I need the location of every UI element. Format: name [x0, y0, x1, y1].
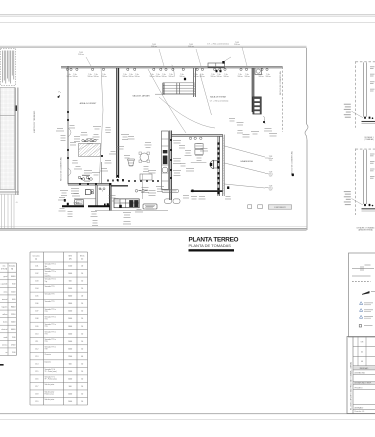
svg-text:100 va: 100 va [134, 76, 139, 78]
svg-text:100 va: 100 va [265, 76, 270, 78]
svg-text:+5: +5 [16, 202, 18, 204]
svg-text:(AREA EXTERNA): (AREA EXTERNA) [358, 229, 373, 232]
svg-text:RECUO DE COBERTURA: RECUO DE COBERTURA [279, 71, 282, 95]
svg-text:C13: C13 [35, 356, 38, 358]
svg-text:10: 10 [81, 303, 83, 305]
svg-text:6000: 6000 [68, 296, 72, 298]
svg-text:TTE: TTE [45, 349, 48, 351]
svg-text:milhos: milhos [2, 314, 7, 316]
svg-text:C06: C06 [35, 303, 38, 305]
svg-text:200: 200 [12, 337, 15, 339]
svg-text:440: 440 [12, 299, 15, 301]
svg-text:TTT: TTT [45, 273, 48, 275]
svg-text:Tomadas TTS e: Tomadas TTS e [45, 339, 56, 341]
svg-text:100 va: 100 va [151, 46, 156, 48]
svg-text:T-29: T-29 [269, 176, 272, 178]
svg-text:a parede: a parede [1, 283, 8, 286]
svg-text:Tomadas TTS e: Tomadas TTS e [45, 271, 56, 273]
svg-text:1000: 1000 [68, 378, 72, 380]
svg-text:40: 40 [81, 356, 83, 358]
svg-text:Tomadas TTS: Tomadas TTS [45, 301, 55, 303]
svg-text:SALA DE JANTAR: SALA DE JANTAR [132, 95, 150, 98]
svg-text:T-29: T-29 [269, 190, 272, 192]
svg-text:Tomadas TTS e: Tomadas TTS e [45, 324, 56, 326]
svg-text:100 va: 100 va [199, 76, 204, 78]
svg-text:06: 06 [361, 361, 363, 363]
svg-text:5000: 5000 [11, 322, 15, 324]
svg-text:100 va: 100 va [258, 76, 263, 78]
svg-text:100 va: 100 va [72, 76, 77, 78]
svg-text:as: as [6, 352, 8, 354]
svg-text:C01: C01 [35, 266, 38, 268]
svg-text:LAVABO: LAVABO [74, 202, 82, 205]
svg-text:atras: atras [4, 290, 8, 293]
svg-text:(1): (1) [35, 259, 38, 261]
svg-text:SALA DE ESTAR: SALA DE ESTAR [210, 96, 227, 99]
svg-text:dutos: dutos [3, 321, 7, 324]
svg-text:100 va: 100 va [210, 76, 215, 78]
svg-text:RECUO DE COBERTURA: RECUO DE COBERTURA [290, 151, 293, 175]
svg-text:1000: 1000 [68, 333, 72, 335]
svg-text:2000: 2000 [68, 326, 72, 328]
svg-text:100 va: 100 va [161, 76, 166, 78]
svg-text:100 va: 100 va [128, 76, 133, 78]
svg-text:100 va: 100 va [87, 76, 92, 78]
svg-text:C17: C17 [35, 386, 38, 388]
svg-text:Circuitos: Circuitos [33, 255, 40, 258]
svg-text:100 va: 100 va [93, 76, 98, 78]
svg-text:500: 500 [69, 363, 72, 365]
svg-text:Trip: Trip [45, 281, 48, 283]
svg-text:CT + 700 a (entreteto): CT + 700 a (entreteto) [210, 100, 229, 103]
svg-text:10: 10 [81, 288, 83, 290]
svg-text:chuvical: chuvical [1, 329, 8, 331]
svg-text:100 va: 100 va [234, 44, 239, 46]
svg-text:100 va: 100 va [216, 76, 221, 78]
svg-text:20: 20 [81, 266, 83, 268]
svg-text:10: 10 [81, 318, 83, 320]
svg-text:10: 10 [81, 378, 83, 380]
svg-text:2290: 2290 [11, 314, 15, 316]
svg-text:1000: 1000 [68, 273, 72, 275]
svg-text:Tomadas TTS: Tomadas TTS [45, 294, 55, 296]
svg-text:C18: C18 [35, 394, 38, 396]
svg-text:100 va: 100 va [223, 76, 228, 78]
svg-text:Prancha - 05: Prancha - 05 [355, 410, 365, 413]
svg-text:Tomadas TTS e: Tomadas TTS e [45, 264, 56, 266]
svg-text:1100: 1100 [68, 266, 72, 268]
svg-text:RECUO DE COBERTURA: RECUO DE COBERTURA [60, 157, 63, 181]
svg-text:02: 02 [361, 352, 363, 354]
svg-text:10: 10 [81, 348, 83, 350]
svg-text:COMPRIMENTO: COMPRIMENTO [274, 207, 287, 209]
svg-text:1000: 1000 [68, 341, 72, 343]
svg-text:REVISAO: REVISAO [360, 367, 369, 370]
svg-text:PLANTA DE TOMADAS: PLANTA DE TOMADAS [189, 243, 232, 248]
svg-text:(W): (W) [69, 259, 72, 261]
svg-text:C12: C12 [35, 348, 38, 350]
svg-text:C08: C08 [35, 318, 38, 320]
svg-text:C11: C11 [35, 341, 38, 343]
svg-text:rtos: rtos [3, 265, 6, 268]
svg-text:Tomadas TTS: Tomadas TTS [45, 286, 55, 288]
svg-text:(TOMADAS): (TOMADAS) [364, 138, 374, 141]
svg-text:Tomadas TTS e: Tomadas TTS e [45, 309, 56, 311]
svg-text:20: 20 [81, 296, 83, 298]
svg-text:1100: 1100 [11, 291, 15, 293]
svg-text:10: 10 [81, 371, 83, 373]
svg-text:2700: 2700 [11, 344, 15, 346]
svg-text:Tomadas TTS e: Tomadas TTS e [45, 316, 56, 318]
svg-text:10: 10 [81, 273, 83, 275]
svg-text:imersol: imersol [2, 298, 8, 301]
svg-text:Tomadas TV e: Tomadas TV e [45, 376, 55, 378]
svg-text:100 va: 100 va [149, 76, 154, 78]
svg-text:ASSINADO: ASSINADO [355, 406, 364, 409]
svg-text:100 va: 100 va [122, 76, 127, 78]
svg-text:7500: 7500 [68, 356, 72, 358]
svg-text:10: 10 [81, 386, 83, 388]
svg-text:C14: C14 [35, 363, 38, 365]
svg-text:Tomadas TTU e: Tomadas TTU e [45, 279, 56, 281]
svg-text:Tomadas TTS e: Tomadas TTS e [45, 346, 56, 348]
svg-text:100 va: 100 va [244, 76, 249, 78]
svg-text:100 va: 100 va [188, 46, 193, 48]
svg-text:CT + 700 a (entreteto): CT + 700 a (entreteto) [207, 43, 229, 46]
svg-text:8440: 8440 [11, 306, 15, 308]
svg-text:Cozinha: Cozinha [45, 268, 51, 270]
svg-text:EL_2020_CIRCUITO ELETRICO DE T: EL_2020_CIRCUITO ELETRICO DE TOMADA__GER… [349, 362, 352, 410]
svg-text:100 va: 100 va [66, 76, 71, 78]
svg-text:4400: 4400 [11, 329, 15, 331]
svg-text:2000: 2000 [68, 303, 72, 305]
svg-text:200: 200 [12, 352, 15, 354]
svg-text:1000: 1000 [68, 288, 72, 290]
svg-text:10: 10 [81, 401, 83, 403]
svg-text:C10: C10 [35, 333, 38, 335]
svg-text:Cozinha: Cozinha [45, 276, 51, 278]
svg-text:500: 500 [69, 386, 72, 388]
svg-text:1000: 1000 [68, 371, 72, 373]
svg-text:C03: C03 [35, 281, 38, 283]
svg-text:10: 10 [81, 326, 83, 328]
svg-text:100 va: 100 va [179, 76, 184, 78]
svg-text:1000: 1000 [68, 394, 72, 396]
svg-text:C15: C15 [35, 371, 38, 373]
svg-text:100 va: 100 va [101, 76, 106, 78]
svg-text:C02: C02 [35, 273, 38, 275]
svg-text:6000: 6000 [11, 276, 15, 278]
svg-text:Ilha: Ilha [45, 266, 48, 268]
svg-text:10: 10 [81, 281, 83, 283]
svg-text:C16: C16 [35, 378, 38, 380]
svg-text:100 va: 100 va [155, 76, 160, 78]
svg-text:Chuveiro: Chuveiro [45, 354, 51, 356]
svg-text:10: 10 [81, 394, 83, 396]
svg-text:10: 10 [81, 311, 83, 313]
svg-text:1000: 1000 [68, 311, 72, 313]
svg-text:onde: onde [4, 337, 8, 339]
svg-text:T-29: T-29 [269, 160, 272, 162]
svg-text:1000: 1000 [68, 348, 72, 350]
svg-text:LAVANDERIA: LAVANDERIA [240, 160, 253, 163]
svg-text:100 va: 100 va [237, 76, 242, 78]
svg-text:LIMITE DO TERRENO: LIMITE DO TERRENO [34, 110, 36, 133]
svg-text:Tomadas TV &: Tomadas TV & [45, 369, 56, 371]
svg-text:10: 10 [81, 341, 83, 343]
svg-text:geral: geral [4, 275, 8, 278]
svg-text:100 va: 100 va [193, 76, 198, 78]
svg-text:C19: C19 [35, 401, 38, 403]
svg-text:C09: C09 [35, 326, 38, 328]
svg-text:1000: 1000 [68, 318, 72, 320]
svg-text:Tomadas TTS e: Tomadas TTS e [45, 331, 56, 333]
svg-text:300: 300 [12, 284, 15, 286]
svg-text:PROJETO: PROJETO [355, 388, 364, 390]
svg-text:C05: C05 [35, 296, 38, 298]
svg-text:lugares: lugares [2, 305, 8, 308]
svg-text:C04: C04 [35, 288, 38, 290]
svg-text:Tomadas: Tomadas [9, 266, 16, 268]
svg-text:BTUs: BTUs [80, 256, 84, 258]
svg-text:servico: servico [2, 343, 7, 346]
svg-text:1000: 1000 [68, 401, 72, 403]
svg-text:100 va: 100 va [78, 54, 83, 56]
svg-text:100 va: 100 va [168, 76, 173, 78]
svg-text:10: 10 [81, 333, 83, 335]
svg-text:C07: C07 [35, 311, 38, 313]
svg-text:10: 10 [81, 363, 83, 365]
svg-text:500: 500 [69, 281, 72, 283]
svg-text:AREA GOURMET: AREA GOURMET [80, 102, 97, 105]
